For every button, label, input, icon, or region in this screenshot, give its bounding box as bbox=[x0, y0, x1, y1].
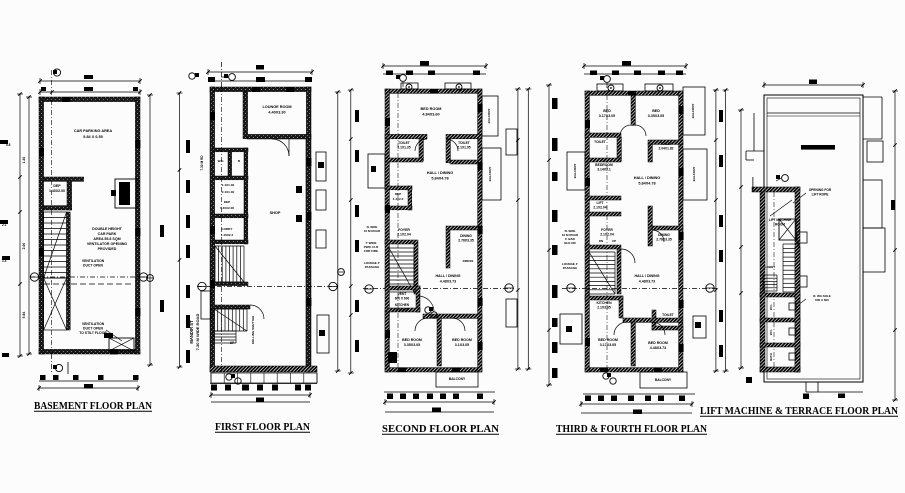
svg-text:AREA 55.8 SQM: AREA 55.8 SQM bbox=[93, 237, 120, 241]
plan4 outer walls bbox=[585, 91, 683, 95]
road level marker bbox=[147, 275, 154, 282]
plan5 left offset lines bbox=[753, 113, 755, 151]
plan1 bottom right duct with cross bbox=[109, 338, 134, 351]
svg-text:BED ROOM: BED ROOM bbox=[421, 107, 442, 111]
plan4 grid marker top bbox=[604, 76, 611, 83]
plan2 left room stack walls bbox=[213, 148, 248, 152]
svg-text:4.48X3.73: 4.48X3.73 bbox=[440, 280, 456, 284]
svg-text:1.40X2.00: 1.40X2.00 bbox=[49, 189, 65, 193]
svg-text:W.C.: W.C. bbox=[769, 329, 773, 335]
plan3 foyer door arc bbox=[418, 296, 434, 312]
extra dimension text blob bbox=[160, 225, 164, 237]
svg-text:SHOP: SHOP bbox=[270, 211, 281, 215]
plan1 horizontal grid line with bubbles bbox=[30, 276, 149, 278]
plan5 right offset step lower bbox=[863, 228, 885, 272]
plan3 kitchen stub bbox=[385, 312, 389, 366]
plan2 lounge room walls bbox=[243, 92, 248, 139]
plan4 staircase bbox=[589, 251, 615, 253]
plan4 horizontal grid line bbox=[562, 288, 718, 290]
plan5 left dimension line bbox=[740, 110, 742, 368]
svg-text:VENT: VENT bbox=[398, 292, 407, 296]
plan1 left dimension line inner bbox=[28, 97, 30, 354]
svg-text:600 X 600: 600 X 600 bbox=[815, 298, 829, 302]
svg-text:BEDROOM: BEDROOM bbox=[595, 163, 613, 167]
plan4 toilet mid walls bbox=[652, 310, 656, 330]
svg-text:5.84X4.78: 5.84X4.78 bbox=[638, 182, 655, 186]
svg-text:TOILET: TOILET bbox=[594, 140, 606, 144]
svg-text:FIRST FLOOR PLAN: FIRST FLOOR PLAN bbox=[215, 421, 310, 433]
svg-text:600 X 600: 600 X 600 bbox=[395, 297, 410, 301]
svg-text:DUCT OPEN: DUCT OPEN bbox=[83, 264, 104, 268]
svg-text:DEP: DEP bbox=[224, 200, 230, 204]
plan4 bottom grid circles bbox=[603, 373, 609, 379]
plan3 toilet partition walls bbox=[385, 134, 427, 138]
dim column left of plan4 line c bbox=[548, 85, 550, 385]
svg-text:2.1X2.04: 2.1X2.04 bbox=[600, 233, 614, 237]
svg-text:1.1X1.30: 1.1X1.30 bbox=[222, 183, 235, 187]
svg-text:LIFT: LIFT bbox=[597, 201, 604, 205]
plan5 bottom blobs bbox=[746, 377, 752, 383]
svg-text:10 M ROAD: 10 M ROAD bbox=[364, 229, 381, 233]
svg-text:HALL / DINING: HALL / DINING bbox=[634, 274, 659, 278]
plan3 top window tabs bbox=[401, 83, 418, 89]
svg-text:2.78X3.35: 2.78X3.35 bbox=[458, 239, 474, 243]
plan2 top dimension line bbox=[208, 71, 312, 73]
svg-text:PROVIDED: PROVIDED bbox=[98, 247, 117, 251]
plan2 right mid box bbox=[317, 315, 329, 353]
plan4 second dimension row bbox=[584, 73, 686, 75]
svg-text:CAR PARK: CAR PARK bbox=[98, 232, 117, 236]
svg-text:KITCHEN: KITCHEN bbox=[596, 301, 612, 305]
plan3 grid marker top bbox=[400, 75, 407, 82]
svg-text:VENTILATION: VENTILATION bbox=[82, 322, 105, 326]
svg-text:BALCONY: BALCONY bbox=[573, 164, 577, 179]
plan3 bottom left dark duct bbox=[388, 352, 397, 363]
svg-text:2.04X1.82: 2.04X1.82 bbox=[658, 147, 673, 151]
svg-text:VENTILATION: VENTILATION bbox=[82, 259, 105, 263]
svg-text:BED ROOM: BED ROOM bbox=[452, 338, 472, 342]
plan5 grid flag bbox=[782, 175, 789, 182]
plan3 right balcony lower bbox=[482, 148, 501, 200]
plan4 interior door arcs bbox=[621, 249, 635, 263]
plan2 right wall inner line bbox=[305, 139, 307, 366]
plan5 water tank bar bbox=[801, 145, 835, 150]
plan1 right duct shaft bbox=[115, 179, 137, 208]
plan3 left balcony bbox=[368, 154, 385, 188]
svg-text:1.40X2.00: 1.40X2.00 bbox=[220, 206, 234, 210]
svg-text:3.35X3.05: 3.35X3.05 bbox=[648, 114, 664, 118]
svg-text:7.30 M WIDE ROAD: 7.30 M WIDE ROAD bbox=[195, 314, 200, 351]
svg-text:DRESS: DRESS bbox=[463, 259, 474, 263]
dim column left of plan3 line a bbox=[337, 92, 339, 371]
plan5 top dimension line bbox=[764, 84, 863, 86]
plan1 stair side wall bbox=[67, 212, 71, 330]
plan1 beam dashed line bbox=[44, 283, 134, 285]
plan3 bottom balcony bbox=[436, 372, 478, 387]
svg-text:BED ROOM: BED ROOM bbox=[402, 338, 422, 342]
plan2 bottom hatched wall bbox=[210, 366, 317, 372]
svg-text:BASEMENT FLOOR PLAN: BASEMENT FLOOR PLAN bbox=[34, 400, 152, 412]
dim column left of plan4 line a bbox=[517, 89, 519, 369]
svg-text:LOBBY: LOBBY bbox=[222, 227, 234, 231]
plan2 staircase bbox=[211, 305, 250, 309]
svg-text:W.C.: W.C. bbox=[218, 159, 225, 163]
plan1 bottom overall dimension bbox=[39, 387, 138, 389]
svg-text:BATH: BATH bbox=[769, 353, 773, 361]
dim column right of plan4 line a bbox=[715, 90, 717, 371]
plan4 bedroom partition bottom bbox=[623, 318, 682, 322]
plan4 left rooms walls bbox=[585, 158, 621, 162]
plan2 right balcony bbox=[316, 152, 326, 181]
dim column left of plan4 line b bbox=[527, 89, 529, 369]
svg-text:2.1X3.35: 2.1X3.35 bbox=[396, 308, 409, 312]
small box below plan4 right bbox=[693, 316, 706, 338]
plan3 kitchen walls bbox=[385, 286, 420, 290]
plan3 dining partition walls bbox=[446, 226, 482, 230]
plan5 lift centerline bbox=[773, 192, 775, 367]
plan2 top left flag bbox=[189, 73, 195, 79]
svg-text:VENTILATOR OPENING: VENTILATOR OPENING bbox=[87, 242, 127, 246]
svg-text:BALCONY: BALCONY bbox=[449, 377, 466, 381]
plan5 right dimension line bbox=[894, 91, 896, 400]
plan1 left dimension line outer bbox=[19, 94, 21, 356]
svg-text:2.1X2.04: 2.1X2.04 bbox=[397, 233, 411, 237]
plan3 bottom grid circles bbox=[425, 307, 431, 313]
plan2 left outside box bbox=[201, 291, 211, 319]
svg-text:2.1X1.35: 2.1X1.35 bbox=[397, 146, 410, 150]
rotated dimension blobs column bbox=[186, 140, 190, 153]
plan3 dep room walls bbox=[385, 186, 412, 190]
blob column left of plan4 bbox=[552, 98, 558, 109]
plan2 bottom grid circles bbox=[226, 374, 232, 380]
plan1 wall window marks bbox=[39, 148, 44, 156]
plan5 terrace parapet inner rectangle bbox=[767, 98, 860, 379]
svg-text:PASSAGE: PASSAGE bbox=[365, 265, 379, 269]
plan4 bottom dimension line bbox=[581, 403, 692, 405]
svg-text:LOUNGE ROOM: LOUNGE ROOM bbox=[262, 105, 291, 109]
svg-text:SECOND FLOOR PLAN: SECOND FLOOR PLAN bbox=[382, 423, 499, 435]
plan5 right offset box mid bbox=[863, 180, 882, 228]
plan1 stair lower flight with cross bbox=[44, 278, 67, 330]
svg-text:FOR FIRE: FOR FIRE bbox=[364, 249, 378, 253]
plan3 bottom segment blobs bbox=[384, 391, 495, 393]
plan5 lift machine room walls bbox=[752, 187, 800, 192]
window tabs on plan3 right dim line bbox=[506, 129, 517, 155]
plan5 toilet window squares bbox=[789, 303, 796, 310]
plan2 grid marker top bbox=[220, 62, 222, 87]
svg-text:5.84X4.78: 5.84X4.78 bbox=[431, 177, 448, 181]
svg-text:UP: UP bbox=[612, 239, 616, 243]
plan1 grid centerline with marker bbox=[51, 70, 53, 354]
plan5 upper inner line bbox=[767, 112, 860, 114]
svg-text:BALCONY: BALCONY bbox=[487, 109, 491, 124]
plan2 second dimension row bbox=[208, 80, 312, 82]
plan1 bottom segment dimension blobs bbox=[40, 375, 46, 380]
svg-text:DEP: DEP bbox=[395, 192, 401, 196]
plan2 wall window marks bbox=[210, 112, 215, 120]
svg-text:FOYER: FOYER bbox=[398, 228, 410, 232]
plan1 bottom centerline marker bbox=[51, 354, 53, 372]
plan4 bedroom divider wall bbox=[631, 95, 635, 125]
svg-text:2.1X3.35: 2.1X3.35 bbox=[597, 306, 611, 310]
plan4 top dimension line bbox=[584, 65, 686, 67]
plan3 bedroom partition walls bbox=[423, 314, 482, 318]
svg-text:5.84 X 6.55: 5.84 X 6.55 bbox=[83, 135, 102, 139]
svg-text:DOUBLE HEIGHT: DOUBLE HEIGHT bbox=[92, 227, 123, 231]
svg-text:TOILET: TOILET bbox=[662, 313, 674, 317]
svg-text:LIFT MACHINE & TERRACE FLO: LIFT MACHINE & TERRACE FLOOR PLAN bbox=[700, 405, 898, 417]
svg-text:HALL / DINING: HALL / DINING bbox=[435, 274, 460, 278]
svg-text:7.30 M RD: 7.30 M RD bbox=[200, 155, 204, 171]
svg-text:1.4X2.0: 1.4X2.0 bbox=[393, 197, 404, 201]
svg-text:FOYER: FOYER bbox=[601, 228, 613, 232]
far left lower note bbox=[2, 353, 9, 357]
plan5 staircase bbox=[783, 243, 799, 245]
svg-text:W.C.: W.C. bbox=[769, 304, 773, 310]
plan3 staircase bbox=[389, 247, 414, 249]
plan2 right wall tabs bbox=[316, 190, 326, 210]
plan3 wall window marks bbox=[385, 118, 390, 126]
road dimension line right bbox=[179, 93, 181, 367]
svg-text:TOILET: TOILET bbox=[660, 142, 672, 146]
plan3 top dimension line bbox=[383, 65, 486, 67]
svg-text:PASSAGE: PASSAGE bbox=[563, 266, 577, 270]
plan2 right wall dark marks bbox=[296, 186, 302, 193]
plan4 right balcony upper bbox=[683, 87, 705, 135]
plan5 lift interior arrow bbox=[770, 200, 792, 216]
svg-text:5.84: 5.84 bbox=[22, 312, 26, 319]
svg-text:BED ROOM: BED ROOM bbox=[598, 338, 618, 342]
svg-text:BALCONY: BALCONY bbox=[691, 104, 695, 119]
svg-text:ROLLING SHUTTER: ROLLING SHUTTER bbox=[251, 315, 255, 344]
plan5 terrace parapet outer rectangle bbox=[764, 95, 863, 382]
svg-text:CAR PARKING AREA: CAR PARKING AREA bbox=[74, 129, 112, 133]
svg-text:4.48X3.73: 4.48X3.73 bbox=[639, 280, 655, 284]
plan4 right balcony lower bbox=[683, 149, 707, 200]
plan2 interior door arc bbox=[250, 305, 264, 319]
svg-text:1.40: 1.40 bbox=[22, 157, 26, 164]
plan4 left lower box bbox=[560, 314, 582, 344]
plan4 left balcony bbox=[567, 152, 585, 190]
svg-text:DUCT OPEN: DUCT OPEN bbox=[83, 327, 104, 331]
svg-text:LIFT ROPE: LIFT ROPE bbox=[812, 193, 829, 197]
plan3 toilet door arcs bbox=[415, 139, 427, 151]
svg-text:3.14X2.1: 3.14X2.1 bbox=[597, 168, 611, 172]
blob column left of plan3 bbox=[355, 110, 359, 122]
svg-text:DEP: DEP bbox=[53, 184, 61, 188]
svg-text:2.00: 2.00 bbox=[22, 243, 26, 250]
plan2 outer walls bbox=[210, 87, 311, 92]
plan3 horizontal grid line bbox=[363, 288, 514, 290]
plan4 toilet partition walls bbox=[585, 133, 621, 137]
plan4 wall window marks bbox=[585, 120, 590, 128]
level bubble left of plan3 bbox=[338, 269, 345, 276]
plan2 portico steps bbox=[211, 373, 317, 383]
plan4 foyer walls bbox=[585, 245, 621, 249]
plan4 lift walls bbox=[585, 212, 621, 216]
plan4 bottom segment blobs bbox=[583, 393, 695, 395]
blob column right of plan4 bbox=[719, 110, 723, 122]
svg-text:DN: DN bbox=[599, 239, 603, 243]
svg-text:BED: BED bbox=[652, 109, 660, 113]
svg-text:LOBBY: LOBBY bbox=[765, 265, 776, 269]
plan1 top dimension line bbox=[40, 80, 140, 82]
plan1 basement outer walls bbox=[39, 97, 140, 102]
svg-text:3.17X3.05: 3.17X3.05 bbox=[600, 343, 616, 347]
plan3 bottom dimension line bbox=[385, 401, 494, 403]
plan4 bedroom door arcs bbox=[620, 125, 631, 136]
plan2 upper staircase bbox=[214, 246, 216, 282]
svg-text:BALCONY: BALCONY bbox=[655, 378, 672, 382]
plan2 interior centerline bbox=[220, 87, 222, 372]
plan4 top window tabs bbox=[597, 84, 623, 91]
plan3 bedroom door arcs bbox=[415, 318, 428, 331]
plan2 bottom dimension line bbox=[211, 394, 310, 396]
svg-text:3.35X3.05: 3.35X3.05 bbox=[404, 343, 420, 347]
svg-text:TO STILT FLOOR: TO STILT FLOOR bbox=[79, 331, 107, 335]
svg-text:BALCONY: BALCONY bbox=[488, 167, 492, 182]
plan4 bottom balcony bbox=[640, 372, 687, 388]
dim column left of plan3 line b bbox=[350, 90, 352, 373]
svg-text:BALCONY: BALCONY bbox=[692, 167, 696, 182]
plan3 right balcony upper bbox=[482, 96, 498, 136]
svg-text:DINING: DINING bbox=[658, 233, 670, 237]
svg-text:BLK DR: BLK DR bbox=[564, 241, 576, 245]
svg-text:HALL / DINING: HALL / DINING bbox=[634, 176, 661, 180]
svg-text:MANDIR ST: MANDIR ST bbox=[189, 320, 194, 344]
svg-text:TOILET: TOILET bbox=[398, 141, 410, 145]
plan5 right offset box bbox=[867, 141, 883, 162]
plan3 top wall circle markers bbox=[406, 84, 412, 90]
svg-text:KITCHEN: KITCHEN bbox=[395, 303, 410, 307]
svg-text:3.1X3.05: 3.1X3.05 bbox=[455, 343, 469, 347]
svg-text:DINING: DINING bbox=[460, 234, 472, 238]
plan5 bottom tab bbox=[805, 382, 807, 392]
svg-text:HALL / DINING: HALL / DINING bbox=[427, 171, 454, 175]
svg-text:2.1X1.95: 2.1X1.95 bbox=[457, 146, 470, 150]
plan5 right offset step upper bbox=[863, 96, 882, 98]
plan4 kitchen walls bbox=[585, 296, 623, 300]
svg-text:4.40X3.30: 4.40X3.30 bbox=[268, 111, 285, 115]
plan5 lift car box bbox=[779, 219, 796, 240]
plan1 second dimension line bbox=[40, 91, 140, 93]
plan5 right wall window tabs bbox=[797, 232, 807, 243]
plan2 lounge door arc bbox=[272, 139, 289, 156]
plan2 bottom segment blobs bbox=[211, 385, 217, 391]
svg-text:TOILET: TOILET bbox=[458, 141, 470, 145]
dim column right of plan4 line b bbox=[725, 90, 727, 371]
plan5 toilet stack walls bbox=[760, 293, 800, 297]
plan1 dep store room walls bbox=[44, 177, 84, 181]
plan2 horizontal grid line with bubbles bbox=[197, 286, 338, 288]
plan1 staircase bbox=[44, 211, 67, 213]
svg-text:THIRD & FOURTH FLOOR PLAN: THIRD & FOURTH FLOOR PLAN bbox=[556, 423, 707, 435]
svg-text:1.40X2.2: 1.40X2.2 bbox=[221, 233, 234, 237]
svg-text:4.48X3.73: 4.48X3.73 bbox=[650, 346, 666, 350]
svg-text:2.1X2.04: 2.1X2.04 bbox=[593, 206, 606, 210]
plan4 dining partition bbox=[648, 206, 652, 246]
svg-text:OPENING FOR: OPENING FOR bbox=[809, 188, 832, 192]
plan5 lobby stair small bbox=[763, 274, 777, 276]
svg-text:3.17X3.05: 3.17X3.05 bbox=[599, 114, 615, 118]
plan3 outer walls bbox=[385, 89, 482, 93]
svg-text:2.1X1.30: 2.1X1.30 bbox=[222, 190, 235, 194]
svg-text:BED ROOM: BED ROOM bbox=[648, 341, 668, 345]
road dimension line left bbox=[149, 95, 151, 365]
plan4 top wall circle markers bbox=[608, 85, 614, 91]
plan3 second dimension row bbox=[383, 73, 486, 75]
plan3 foyer walls bbox=[385, 240, 418, 244]
svg-text:BED: BED bbox=[603, 109, 611, 113]
svg-text:4.84X3.60: 4.84X3.60 bbox=[422, 113, 439, 117]
